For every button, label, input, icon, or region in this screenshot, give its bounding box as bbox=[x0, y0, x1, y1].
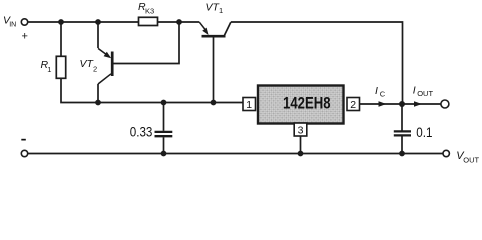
wire 0.1 cap top lead bbox=[401, 104, 403, 131]
svg-text:OUT: OUT bbox=[417, 89, 433, 98]
svg-text:0.33: 0.33 bbox=[130, 124, 153, 139]
capacitor 0.1 bbox=[394, 131, 411, 135]
wire R1 bottom lead bbox=[60, 78, 63, 102]
node junction cap 0.33 bottom bbox=[161, 151, 167, 157]
wire VT2 collector lead bbox=[97, 84, 99, 103]
svg-text:+: + bbox=[22, 31, 28, 43]
svg-text:I: I bbox=[375, 85, 378, 97]
arrow IC current bbox=[379, 101, 387, 107]
node junction cap 0.33 top bbox=[161, 100, 167, 106]
terminal minus bbox=[21, 150, 27, 156]
node junction cap 0.1 bottom bbox=[399, 151, 405, 157]
transistor VT1 bbox=[199, 22, 231, 36]
svg-text:K3: K3 bbox=[145, 7, 154, 16]
node junction VT2 collector bbox=[95, 100, 101, 106]
terminal VOUT bbox=[443, 150, 449, 156]
node junction VT1 base bbox=[211, 100, 217, 106]
svg-text:2: 2 bbox=[350, 99, 356, 111]
label IC current bbox=[375, 85, 386, 98]
svg-text:OUT: OUT bbox=[463, 156, 479, 165]
label IOUT bbox=[413, 84, 434, 98]
label VIN bbox=[3, 15, 16, 29]
transistor VT2 bbox=[98, 48, 112, 84]
svg-text:I: I bbox=[413, 84, 416, 96]
wire VT2 base to RK3 node bbox=[113, 22, 179, 64]
wire VT2 emitter lead bbox=[97, 22, 99, 48]
label minus bbox=[21, 139, 26, 141]
wire pin2 to output node bbox=[360, 103, 403, 105]
node junction top VT2 bbox=[95, 19, 101, 25]
svg-text:2: 2 bbox=[93, 65, 97, 74]
wire cap 0.33 top lead bbox=[163, 103, 165, 131]
node junction RK3 right bbox=[176, 19, 182, 25]
wire bottom rail bbox=[28, 153, 443, 155]
IC 142EH8 bbox=[258, 86, 344, 124]
svg-text:0.1: 0.1 bbox=[416, 125, 432, 140]
wire VT1 collector to output node bbox=[231, 22, 403, 104]
svg-text:C: C bbox=[380, 90, 386, 99]
wire R1 top lead bbox=[60, 22, 62, 56]
label VT1 bbox=[206, 2, 224, 15]
resistor RK3 bbox=[139, 17, 158, 25]
terminal VIN bbox=[21, 19, 27, 25]
svg-text:1: 1 bbox=[47, 65, 51, 74]
terminal IOUT bbox=[441, 100, 449, 108]
pin 2 bbox=[347, 98, 360, 112]
svg-text:142EH8: 142EH8 bbox=[283, 95, 331, 113]
label RK3 bbox=[138, 1, 154, 16]
resistor R1 bbox=[56, 56, 65, 78]
wire 0.1 cap bottom lead bbox=[401, 137, 403, 154]
wire top rail RK3 to VT1 bbox=[158, 21, 200, 23]
arrow IOUT bbox=[414, 101, 422, 107]
wire output node to terminal bbox=[402, 103, 441, 105]
svg-text:1: 1 bbox=[246, 99, 252, 111]
node junction top R1 bbox=[58, 19, 64, 25]
svg-text:IN: IN bbox=[9, 22, 16, 29]
wire pin3 to bottom rail bbox=[300, 136, 302, 154]
wire middle rail bbox=[62, 102, 244, 104]
svg-text:1: 1 bbox=[219, 6, 223, 15]
wire VT1 base lead bbox=[213, 38, 215, 103]
capacitor 0.33 bbox=[155, 132, 173, 136]
svg-text:3: 3 bbox=[298, 125, 304, 137]
pin 1 bbox=[243, 98, 256, 112]
wire top rail bbox=[28, 21, 139, 23]
pin 3 bbox=[294, 123, 307, 137]
node junction pin3 bbox=[298, 151, 304, 157]
node junction output bbox=[399, 101, 405, 107]
label VT2 bbox=[80, 58, 98, 74]
wire cap 0.33 bottom lead bbox=[163, 137, 165, 153]
label R1 bbox=[41, 59, 52, 74]
label VOUT bbox=[456, 150, 479, 165]
